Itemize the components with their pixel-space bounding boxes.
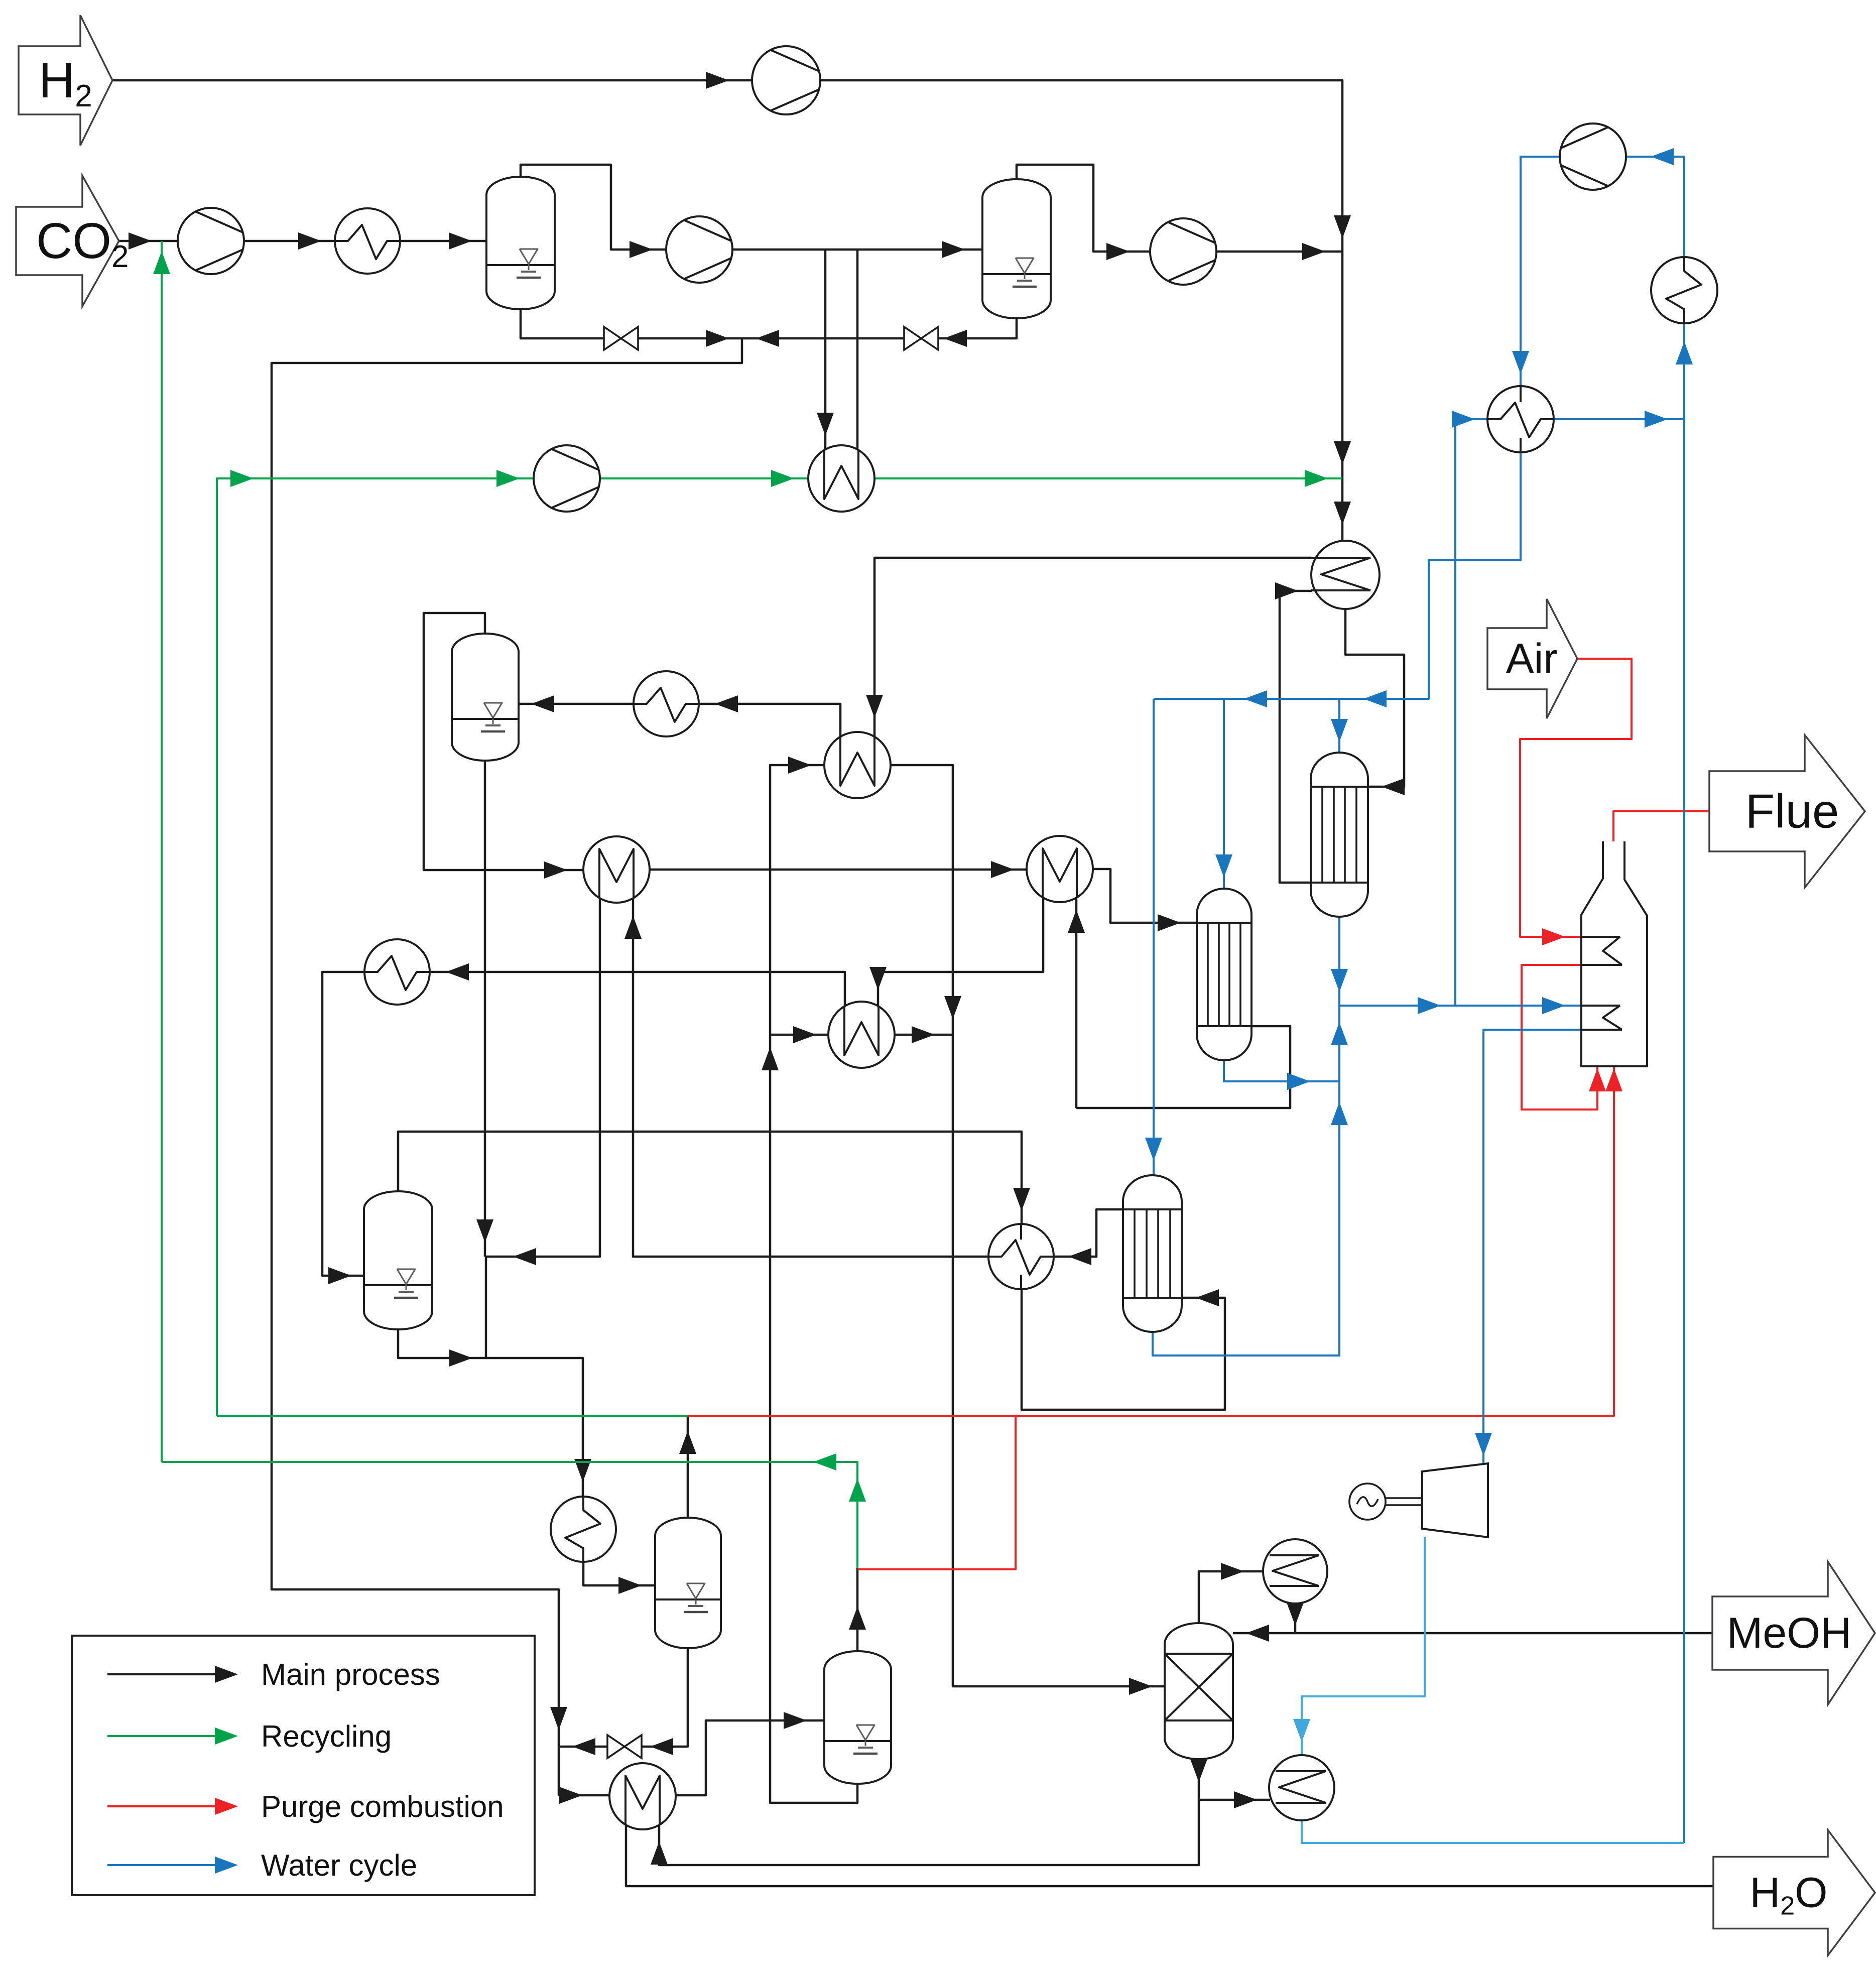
- heat exchanger E10 (steam superheater): [1651, 257, 1717, 323]
- wire V1 bottoms to letdown valve: [521, 309, 742, 338]
- arrowhead down into letdown cooler HX7: [574, 1459, 591, 1482]
- wire K3 discharge to main header: [1215, 251, 1342, 253]
- arrowhead column bottoms down: [1190, 1759, 1207, 1782]
- svg-text:Purge combustion: Purge combustion: [261, 1790, 504, 1823]
- compressor K5 (recycle, green line): [534, 445, 600, 512]
- arrowhead purge up into furnace: [1605, 1068, 1622, 1091]
- legend box: [72, 1636, 535, 1895]
- arrowhead into trim heater: [771, 470, 794, 487]
- wire condensate header down left side: [272, 338, 742, 1747]
- output arrow Flue: [1709, 735, 1865, 888]
- arrowhead into interchanger M1: [544, 861, 567, 879]
- arrowhead feed riser up: [762, 1047, 779, 1070]
- arrowhead into compressor K2: [630, 241, 653, 258]
- wire recycle compressor to trim heater: [600, 477, 809, 479]
- output arrow MeOH: [1712, 1562, 1875, 1705]
- wire HX1 shell out to superheater HX2: [1554, 418, 1684, 420]
- wire reactor R3 outlet to HX6 shell: [1055, 1209, 1123, 1257]
- arrowhead M1 tube out to junction: [513, 1248, 536, 1265]
- wire bottoms to interchanger M3 tube: [659, 1800, 1199, 1865]
- arrowhead V5 vapor up: [679, 1431, 696, 1454]
- wire turbine exhaust to reboiler: [1302, 1537, 1425, 1756]
- arrowhead manifold left 2: [1244, 690, 1267, 707]
- arrowhead R1 steam down: [1331, 969, 1348, 992]
- arrowhead V2 bottoms to junction: [756, 330, 779, 347]
- wire tube return from green-line exchanger: [856, 250, 859, 451]
- arrowhead down into steam exchanger W1: [866, 695, 883, 718]
- wire cooler HX5 to separator V3: [322, 972, 365, 1276]
- wire HX4 tube out to cooler train: [874, 558, 1311, 736]
- wire M2 tube out to W2 steam exchanger: [878, 898, 1043, 1006]
- arrowhead into W1 shell: [788, 757, 811, 774]
- wire V2 bottoms to letdown valve: [742, 318, 1017, 338]
- arrowhead down into W2 tube: [869, 967, 887, 990]
- arrowhead recycle joins main header: [1305, 470, 1328, 487]
- heat exchanger E2 (recycle trim heater): [808, 445, 874, 512]
- arrowhead condenser outlet down: [1287, 1603, 1304, 1626]
- arrowhead valve out to junction: [572, 1738, 595, 1755]
- arrowhead into separator V2: [942, 241, 965, 258]
- wire R2 steam to header: [1224, 1060, 1339, 1081]
- wire purge-split recycle return: [217, 1415, 688, 1417]
- arrowhead main header down 2: [1334, 441, 1351, 464]
- wire HX1 water down to reactor cooling manifold: [1154, 452, 1521, 699]
- compressor K4 (second stage): [1150, 218, 1216, 285]
- arrowhead feed line down: [944, 996, 961, 1019]
- wire condenser out reflux and product: [1233, 1604, 1295, 1633]
- wire M1 tube out to flash junction: [486, 898, 600, 1257]
- wire column overhead to condenser: [1199, 1571, 1264, 1623]
- arrowhead up into M2 tube: [1068, 910, 1085, 933]
- wire V6 bottoms to column-feed riser: [770, 765, 857, 1803]
- wire V4 overhead loop to interchanger M1: [424, 613, 584, 870]
- arrowhead into reactor R2: [1158, 914, 1181, 931]
- arrowhead water into R2: [1215, 854, 1232, 878]
- heat exchanger E4 (R1 effluent cooler): [634, 671, 699, 736]
- wire reactor R2 outlet to M2 tube side: [1076, 1026, 1290, 1108]
- heat exchanger M1 (recycle interchanger): [583, 836, 650, 903]
- generator on turbine shaft: [1349, 1484, 1422, 1520]
- separator V6 (stabilizer flash): [824, 1651, 891, 1784]
- wire V1 overhead to compressor K2: [521, 165, 667, 250]
- arrowhead up into HX2: [1676, 341, 1693, 364]
- heat exchanger M2 (R2 feed interchanger): [1027, 836, 1093, 902]
- reactor R3 (third methanol converter): [1123, 1175, 1182, 1332]
- wire column bottoms: [1199, 1759, 1270, 1800]
- arrowhead into column: [1129, 1678, 1152, 1695]
- separator V3: [364, 1191, 432, 1329]
- valve V5 letdown: [607, 1735, 642, 1758]
- wire purge header to furnace: [688, 1067, 1614, 1416]
- input arrow CO2: [16, 176, 129, 306]
- arrowhead V1 bottoms to junction: [706, 330, 729, 347]
- wire recycle line to recycle compressor: [217, 478, 534, 1416]
- arrowhead up into M3 tube: [651, 1841, 668, 1865]
- wire HX2 to circulation pump: [1627, 157, 1684, 258]
- arrowhead into compressor K3: [1106, 243, 1130, 260]
- wire liquid junction into interchanger M3: [559, 1747, 610, 1795]
- separator V1: [486, 177, 555, 309]
- arrowhead into letdown valve: [650, 1738, 673, 1755]
- arrowhead into cooler HX8: [715, 695, 738, 712]
- heat exchanger W2 (R2 effluent / column feed preheat): [828, 1002, 895, 1068]
- wire W1 tube out to cooler HX8: [700, 704, 840, 736]
- wire reboiler condensate return: [1302, 1819, 1684, 1843]
- arrowhead into separator V3: [328, 1267, 351, 1284]
- wire V6 purge riser: [857, 1416, 1016, 1569]
- wire recycle join at CO2 feed: [161, 241, 163, 1462]
- heat exchanger E1 (CO2 cooler): [335, 208, 400, 274]
- compressor K3 (interstage): [666, 216, 732, 283]
- svg-text:Main process: Main process: [261, 1658, 440, 1691]
- wire V2 overhead to compressor K3: [1017, 165, 1151, 252]
- wire V6 vapor riser: [856, 1568, 859, 1651]
- arrowhead into separator V1: [449, 232, 472, 250]
- wire HX6 shell out to interchanger M1 tube: [633, 898, 987, 1257]
- wire crude junction down to V3 bottoms tee: [486, 1257, 583, 1498]
- arrowhead CO2 feed: [129, 232, 152, 250]
- wire reactor R1 outlet to HX4 tube side: [1280, 591, 1312, 883]
- arrowhead air up into furnace: [1589, 1068, 1606, 1091]
- arrowhead tube drop: [817, 413, 834, 436]
- heat exchanger E7 (letdown cooler): [551, 1497, 616, 1562]
- arrowhead V3 bottoms: [449, 1349, 472, 1367]
- arrowhead down into HX6: [1013, 1188, 1030, 1211]
- valve V2 letdown: [904, 327, 938, 350]
- heat exchanger E11 (economizer): [1487, 386, 1554, 452]
- wire preheated air to burner: [1522, 965, 1597, 1110]
- wire condensate main riser: [1683, 419, 1685, 1843]
- arrowhead steam into boiler coil: [1542, 997, 1565, 1014]
- reboiler E9 (column bottoms): [1269, 1755, 1334, 1820]
- wire W2 shell out joining feed line: [894, 1034, 953, 1036]
- input arrow Air: [1487, 599, 1577, 718]
- arrowhead V4 bottoms down: [476, 1219, 493, 1243]
- arrowhead R3 steam up: [1331, 1102, 1348, 1125]
- output arrow H2O: [1713, 1830, 1875, 1955]
- wire cooling water into reactor R2: [1223, 699, 1225, 890]
- arrowhead K3 discharge: [1302, 243, 1325, 260]
- wire V5 vapor to purge split: [687, 1416, 689, 1518]
- wire cooler E1 to separator V1: [400, 240, 486, 242]
- wire trim heater to main header: [873, 477, 1342, 479]
- arrowhead up into M1 tube: [624, 916, 642, 939]
- wire boiler coil out to turbine: [1483, 1030, 1581, 1469]
- arrowhead into valve from V2: [944, 330, 967, 347]
- wire H2 feed to compressor and main header: [112, 80, 1342, 542]
- compressor K1 (CO2 feed): [178, 208, 244, 274]
- arrowhead V6 recycle left: [813, 1453, 836, 1470]
- heat exchanger E6 (R3 interchanger): [988, 1224, 1054, 1289]
- wire tube drop into green-line exchanger: [824, 250, 827, 451]
- arrowhead V6 vapor up: [849, 1607, 866, 1630]
- wire R3 steam riser: [1153, 1006, 1339, 1355]
- arrowhead into condenser: [1221, 1563, 1244, 1580]
- arrowhead H2 line into compressor: [706, 72, 729, 89]
- arrowhead condensate header down: [550, 1707, 567, 1730]
- arrowhead into HX1 shell: [1452, 411, 1475, 428]
- arrowhead steam right 1: [1418, 997, 1441, 1014]
- wire M1 shell out to interchanger M2: [650, 869, 1028, 871]
- arrowhead R2 steam right: [1287, 1073, 1310, 1090]
- arrowhead into interchanger M3: [559, 1787, 582, 1804]
- wire steam header from reactors to boiler coil: [1339, 917, 1581, 1006]
- svg-text:Recycling: Recycling: [261, 1719, 392, 1753]
- wire HX6 bottom to reactor R3 inlet: [1022, 1289, 1225, 1410]
- arrowhead exhaust into reboiler: [1293, 1719, 1310, 1742]
- wire M2 shell out to reactor R2: [1093, 869, 1198, 923]
- wire flue gas outlet: [1613, 811, 1709, 858]
- svg-text:MeOH: MeOH: [1727, 1609, 1851, 1657]
- arrowhead V6 recycle up: [849, 1478, 866, 1502]
- arrowhead W2 shell out: [912, 1026, 935, 1043]
- separator V4 (HP flash): [452, 634, 519, 761]
- arrowhead steam into turbine: [1475, 1433, 1492, 1456]
- arrowhead reflux into column: [1246, 1625, 1269, 1642]
- condenser E8 (column overhead): [1263, 1539, 1327, 1604]
- arrowhead air into coil: [1542, 928, 1565, 945]
- arrowhead main header into interchange HX: [1334, 502, 1351, 525]
- arrowhead into recycle compressor: [496, 470, 520, 487]
- wire pump to HX1 top: [1521, 157, 1560, 387]
- arrowhead into separator V4: [531, 695, 554, 712]
- arrowhead recycle right 1: [230, 470, 254, 487]
- wire CO2 feed to compressor K1: [119, 240, 178, 242]
- arrowhead into reactor R3: [1196, 1289, 1219, 1306]
- arrowhead into interchanger M2: [991, 861, 1014, 878]
- wire V4 bottoms down: [484, 761, 486, 1257]
- arrowhead steam up to junction: [1331, 1022, 1348, 1045]
- wire M3 shell out to flash V6: [676, 1720, 825, 1795]
- wire interchanger HX4 to reactor R1 inlet: [1345, 609, 1404, 787]
- arrowhead main header down 1: [1334, 215, 1351, 238]
- wire feed branch into W2 shell: [770, 1034, 829, 1036]
- heat exchanger M3 (bottoms interchanger): [609, 1763, 676, 1829]
- input arrow H2: [19, 16, 112, 146]
- svg-text:Flue: Flue: [1745, 785, 1839, 838]
- pump P1 (boiler water circulation): [1560, 124, 1626, 190]
- arrowhead into reboiler: [1234, 1791, 1257, 1808]
- furnace (purge combustion heater): [1581, 841, 1647, 1066]
- steam turbine: [1422, 1463, 1488, 1537]
- wire riser into HX2: [1683, 324, 1685, 419]
- separator V5 (LP flash): [655, 1518, 721, 1648]
- wire cooler HX8 to separator V4: [519, 703, 634, 705]
- wire W2 tube out to cooler HX5: [431, 972, 845, 1006]
- arrowhead water into R1: [1331, 719, 1348, 742]
- arrowhead into cooler HX5: [446, 963, 469, 980]
- wire M3 tube out to H2O product: [626, 1824, 1713, 1886]
- wire cooling water into reactor R1: [1338, 699, 1340, 754]
- wire W1 shell out down to column feed: [890, 765, 1166, 1686]
- arrowhead into flash V6: [784, 1712, 807, 1729]
- valve V1 letdown: [604, 327, 638, 350]
- wire letdown cooler HX7 to flash V5: [583, 1562, 656, 1585]
- arrowhead manifold left 1: [1363, 690, 1387, 707]
- arrowhead into W2 shell: [793, 1026, 816, 1043]
- heat exchanger E5 (R2 effluent cooler): [364, 939, 430, 1005]
- wire economizer branch up to HX1 shell: [1455, 419, 1488, 1006]
- heat exchanger W1 (R1 effluent steam raiser): [824, 732, 891, 798]
- separator V2: [982, 179, 1051, 318]
- arrowhead into cooler E1: [298, 232, 321, 250]
- reactor R2 (second methanol converter): [1197, 889, 1252, 1060]
- wire cooling water into reactor R3: [1153, 699, 1155, 1176]
- reactor R1 (first methanol converter): [1311, 753, 1368, 917]
- compressor K2 (H2 feed): [752, 46, 820, 114]
- arrowhead into riser: [1645, 411, 1668, 428]
- wire air to furnace preheat coil: [1520, 659, 1632, 937]
- distillation column C1: [1165, 1623, 1233, 1759]
- wire K2 to separator V2 via steam generator tubes: [731, 249, 982, 251]
- arrowhead into pump: [1651, 148, 1674, 165]
- svg-text:Water cycle: Water cycle: [261, 1848, 417, 1882]
- wire K1 to cooler E1: [244, 240, 336, 242]
- arrowhead water into R3: [1145, 1138, 1162, 1161]
- arrowhead into HX6 shell: [1068, 1248, 1091, 1265]
- arrowhead into flash V5: [618, 1577, 642, 1594]
- wire V3 overhead to interchanger HX6: [398, 1132, 1022, 1225]
- heat exchanger E3 (feed/effluent interchanger): [1311, 541, 1380, 609]
- arrowhead down into HX1: [1512, 351, 1529, 374]
- wire V6 vapor recycle return: [162, 1462, 857, 1568]
- arrowhead recycle into CO2 line: [153, 251, 170, 274]
- wire V3 bottoms to tee: [398, 1329, 486, 1358]
- svg-text:Air: Air: [1506, 635, 1558, 682]
- wire V5 bottoms through valve: [559, 1648, 688, 1747]
- arrowhead R1 outlet into HX4: [1275, 582, 1298, 599]
- arrowhead into reactor R1: [1382, 778, 1405, 795]
- wire MeOH product line: [1295, 1632, 1712, 1635]
- wire M2 tube riser: [1075, 898, 1078, 1108]
